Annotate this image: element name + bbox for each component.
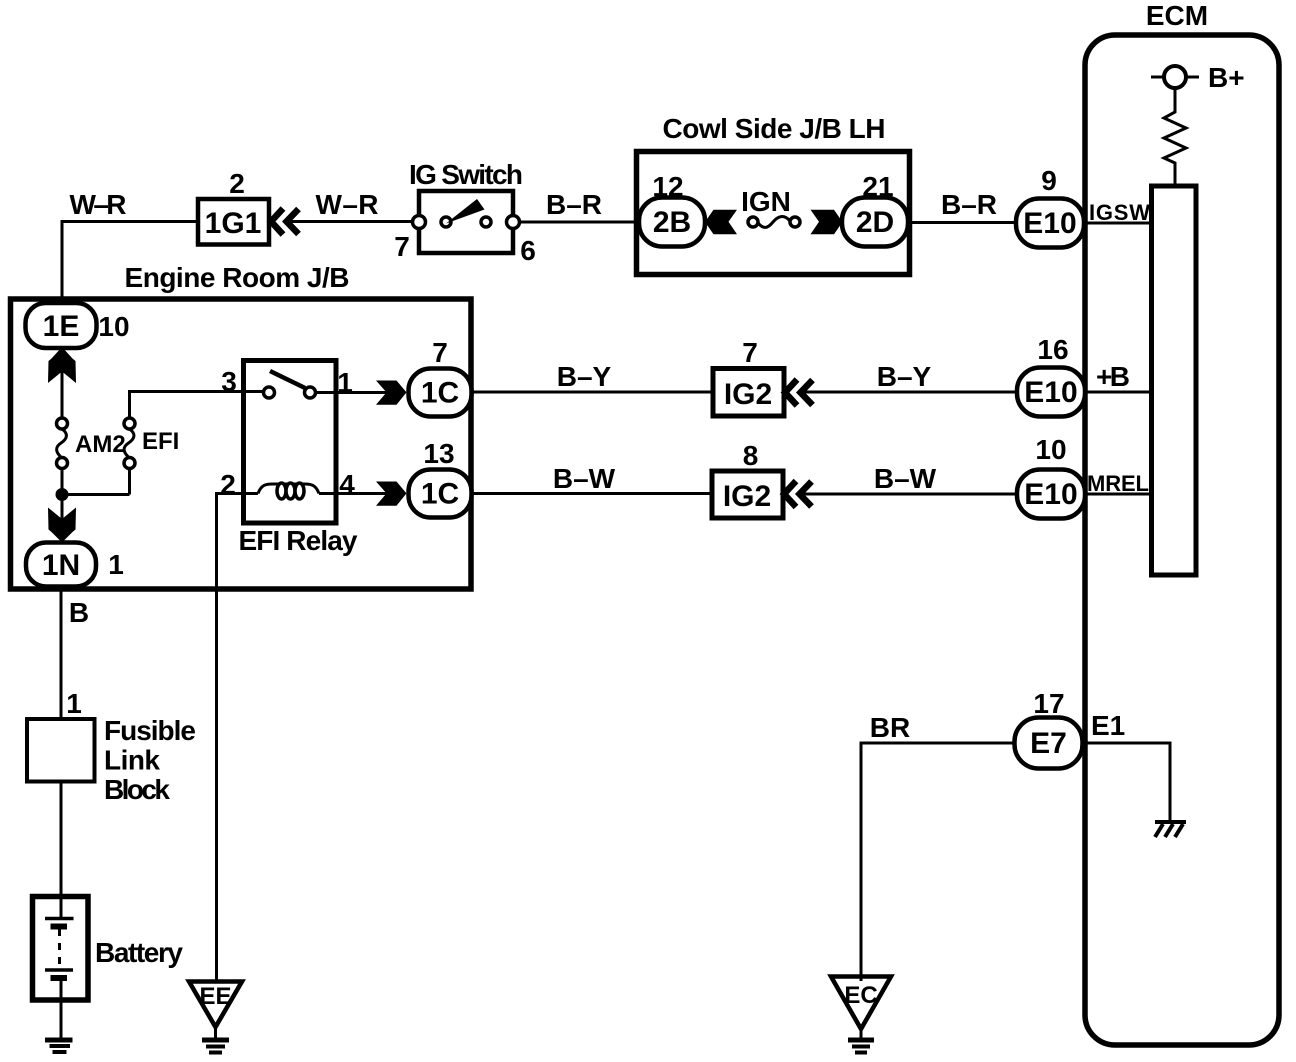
- svg-text:2D: 2D: [856, 206, 894, 239]
- relay lever: [270, 371, 305, 388]
- wire IG2-8 to E10-10: [801, 493, 1017, 496]
- wire EFI to junction: [128, 468, 131, 495]
- wire E10-16 to strip: [1085, 391, 1151, 394]
- Battery: [33, 897, 89, 1001]
- arrow right (to 2D): [811, 210, 843, 235]
- connector 1C pin7: [409, 369, 472, 417]
- svg-text:Battery: Battery: [95, 937, 183, 968]
- connector E10 pin16: [1017, 368, 1085, 417]
- fuse IGN: [748, 217, 800, 228]
- svg-text:IGN: IGN: [741, 186, 791, 217]
- ground symbol below EC: [848, 1029, 874, 1053]
- svg-text:EFI: EFI: [142, 428, 179, 455]
- svg-text:W–R: W–R: [70, 189, 127, 220]
- chevrons after IG2-7: [785, 380, 813, 406]
- svg-text:2: 2: [229, 168, 245, 199]
- svg-text:17: 17: [1033, 688, 1064, 719]
- svg-text:1C: 1C: [421, 478, 459, 511]
- wire 2D to E10: [908, 221, 1017, 224]
- IG switch terminal 7 circle: [413, 216, 426, 229]
- svg-text:BR: BR: [870, 712, 910, 743]
- svg-text:13: 13: [423, 438, 454, 469]
- svg-text:+B: +B: [1096, 361, 1130, 392]
- wire coil to EE drop: [217, 494, 259, 982]
- Engine Room J/B box: [11, 299, 472, 589]
- wire 1C-13 to IG2-8: [472, 492, 713, 495]
- svg-text:1: 1: [66, 688, 82, 719]
- connector E10 pin9: [1016, 199, 1084, 248]
- svg-text:16: 16: [1037, 334, 1068, 365]
- svg-text:B–Y: B–Y: [557, 361, 612, 392]
- connector IG2 pin8: [712, 471, 783, 518]
- IG switch terminal 6 circle: [507, 216, 520, 229]
- arrow left (to 2B): [705, 210, 737, 235]
- svg-text:IG Switch: IG Switch: [409, 159, 523, 190]
- wire AM2 to junction: [61, 468, 64, 545]
- wire IG switch to cowl box: [520, 221, 641, 224]
- svg-text:21: 21: [862, 171, 893, 202]
- wire IG2 to E10-16: [802, 391, 1017, 394]
- wire 1N to fusible link block: [60, 586, 63, 719]
- svg-text:10: 10: [1035, 434, 1066, 465]
- svg-text:IG2: IG2: [724, 378, 772, 411]
- svg-text:IGSW: IGSW: [1089, 200, 1150, 225]
- IG Switch box: [419, 191, 513, 253]
- wire E7 to internal ground: [1082, 743, 1170, 822]
- svg-text:4: 4: [339, 469, 355, 500]
- svg-text:9: 9: [1041, 165, 1057, 196]
- svg-text:7: 7: [394, 231, 410, 262]
- svg-text:EFI Relay: EFI Relay: [239, 525, 358, 556]
- svg-text:B–W: B–W: [874, 463, 937, 494]
- B+ terminal circle: [1151, 66, 1199, 88]
- ground EC triangle: [831, 977, 891, 1030]
- resistor inside ECM: [1164, 88, 1186, 186]
- IG switch inner contacts: [441, 217, 451, 227]
- svg-text:EC: EC: [844, 982, 877, 1009]
- svg-text:1E: 1E: [43, 310, 80, 343]
- chevrons after IG2-8: [784, 481, 812, 507]
- svg-text:B+: B+: [1208, 62, 1245, 93]
- relay coil: [258, 483, 319, 499]
- wire W-R top left horizontal: [62, 222, 198, 305]
- chevrons after 1G1: [271, 209, 299, 235]
- svg-text:B–Y: B–Y: [877, 361, 932, 392]
- svg-text:1G1: 1G1: [205, 207, 262, 240]
- svg-text:Link: Link: [104, 745, 160, 776]
- svg-text:1C: 1C: [421, 377, 459, 410]
- svg-text:E10: E10: [1024, 478, 1077, 511]
- svg-text:1N: 1N: [42, 549, 80, 582]
- IG switch lever: [446, 199, 485, 224]
- ground EE triangle: [189, 982, 242, 1028]
- connector 2D: [842, 198, 908, 247]
- svg-text:Fusible: Fusible: [104, 715, 196, 746]
- relay switch contacts: [264, 387, 275, 398]
- wire FLB to battery: [60, 782, 63, 919]
- svg-text:EE: EE: [199, 983, 231, 1010]
- svg-text:2: 2: [220, 469, 236, 500]
- wire from chevrons to IG switch: [288, 220, 413, 223]
- svg-text:3: 3: [221, 366, 237, 397]
- svg-text:B–R: B–R: [941, 189, 997, 220]
- svg-text:6: 6: [520, 235, 536, 266]
- svg-text:2B: 2B: [653, 206, 691, 239]
- svg-text:7: 7: [432, 337, 448, 368]
- svg-text:ECM: ECM: [1146, 0, 1208, 31]
- wire battery to ground: [60, 978, 63, 1040]
- EFI Relay box: [244, 361, 337, 524]
- connector IG2 pin7: [713, 369, 784, 417]
- svg-text:7: 7: [742, 337, 758, 368]
- arrow to 1C-13: [376, 482, 407, 506]
- junction dot: [56, 488, 69, 501]
- connector 1E: [26, 303, 97, 348]
- wire 1C-7 to IG2: [472, 391, 714, 394]
- connector 1C pin13: [409, 470, 472, 518]
- arrow to 1C-7: [376, 381, 407, 405]
- svg-text:Cowl Side J/B LH: Cowl Side J/B LH: [663, 113, 886, 144]
- arrow down to 1N: [48, 508, 76, 543]
- svg-text:12: 12: [652, 171, 683, 202]
- svg-text:E1: E1: [1091, 710, 1125, 741]
- svg-text:W–R: W–R: [316, 189, 379, 220]
- wire E10 to strip IGSW: [1084, 222, 1151, 225]
- svg-text:B: B: [69, 597, 89, 628]
- svg-text:8: 8: [743, 440, 759, 471]
- svg-text:B–W: B–W: [553, 463, 616, 494]
- wire 1E down to AM2: [61, 348, 64, 418]
- ECM box: [1085, 35, 1279, 1045]
- ground symbol below battery: [45, 1040, 73, 1052]
- svg-text:E10: E10: [1024, 376, 1077, 409]
- svg-text:MREL: MREL: [1087, 471, 1149, 496]
- svg-text:E10: E10: [1023, 207, 1076, 240]
- wire relay coil to 1C-13: [319, 492, 390, 495]
- svg-text:10: 10: [98, 311, 129, 342]
- svg-text:E7: E7: [1030, 727, 1067, 760]
- wire E10-10 to strip: [1085, 493, 1151, 496]
- chassis ground inside ECM: [1155, 822, 1186, 837]
- connector 1G1: [198, 199, 269, 245]
- connector 2B: [639, 198, 705, 247]
- Cowl Side J/B LH box: [637, 152, 910, 275]
- connector E7 pin17: [1015, 718, 1083, 769]
- fuse EFI: [124, 418, 135, 469]
- svg-text:IG2: IG2: [723, 480, 771, 513]
- svg-text:1: 1: [108, 549, 124, 580]
- ECM inner connector strip: [1152, 186, 1197, 575]
- connector E10 pin10: [1017, 470, 1085, 519]
- fuse AM2: [57, 418, 68, 469]
- arrow up to 1E: [48, 347, 76, 383]
- ground symbol below EE: [202, 1027, 229, 1053]
- connector 1N: [26, 543, 96, 587]
- wire BR to E7: [861, 743, 1014, 981]
- Fusible Link Block box: [27, 719, 95, 782]
- svg-text:Engine Room J/B: Engine Room J/B: [125, 262, 350, 293]
- svg-text:Block: Block: [104, 774, 170, 805]
- wire relay pin1 to 1C: [315, 391, 390, 394]
- wire EFI branch up and right to relay: [62, 493, 130, 496]
- svg-text:B–R: B–R: [546, 189, 602, 220]
- svg-text:AM2: AM2: [75, 431, 126, 458]
